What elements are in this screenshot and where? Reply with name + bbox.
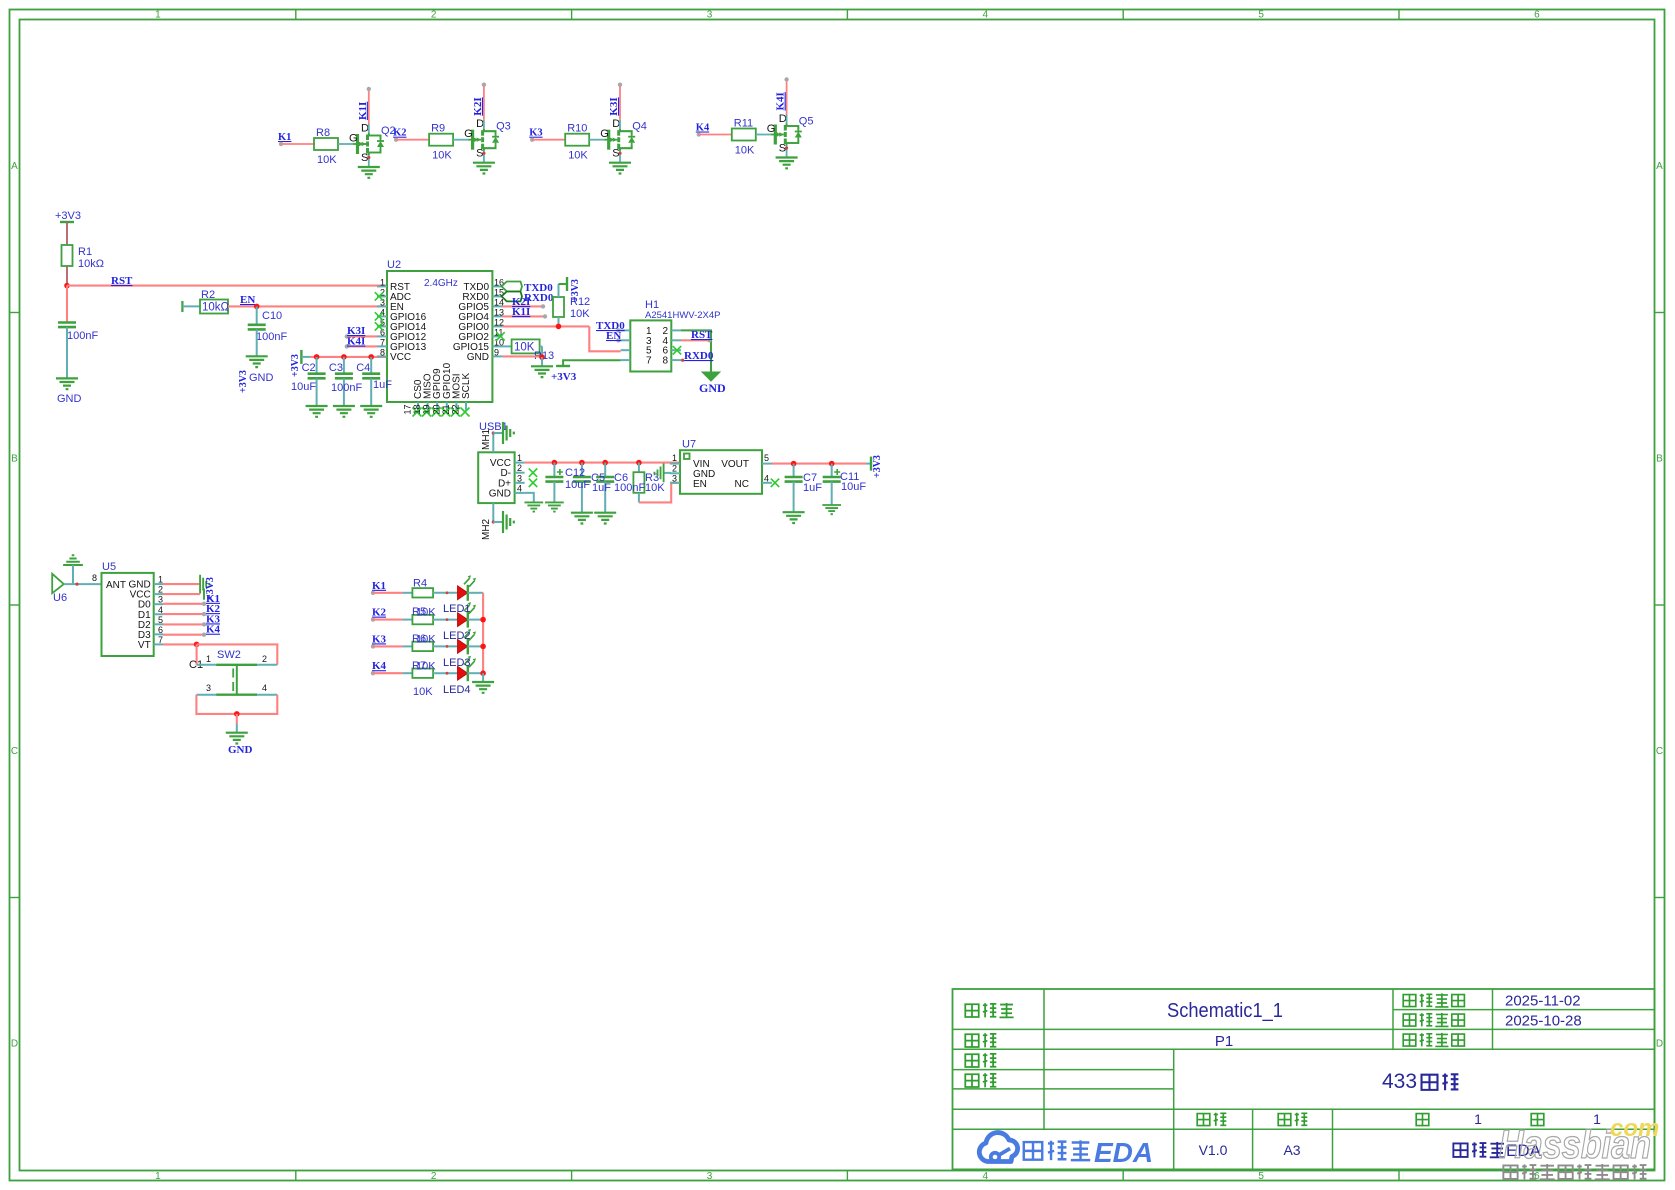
watermark Hassbian (1499, 1115, 1659, 1179)
svg-text:1: 1 (1474, 1111, 1482, 1127)
svg-text:K1I: K1I (357, 102, 369, 120)
svg-text:C12: C12 (565, 467, 585, 479)
net flag TXD0 (502, 282, 554, 295)
svg-text:10uF: 10uF (291, 381, 316, 393)
transistor Q4 (600, 118, 647, 160)
wire (338, 143, 353, 145)
svg-text:6: 6 (1534, 1171, 1540, 1182)
net label K1 (371, 580, 386, 595)
capacitor C4 (356, 362, 380, 378)
wire (373, 672, 412, 674)
net label K2 (393, 128, 406, 142)
wire SW2 bottom loop (196, 695, 277, 733)
wire drain to K1I (367, 87, 371, 133)
wire (532, 139, 565, 141)
svg-text:3: 3 (158, 595, 163, 605)
svg-text:VOUT: VOUT (721, 459, 749, 470)
title block text (965, 993, 1601, 1161)
svg-text:+3V3: +3V3 (872, 455, 883, 478)
resistor R8 (314, 127, 338, 166)
pin 10 GPIO15 (453, 337, 504, 353)
net label TXD0 (H1 pin1) (596, 320, 625, 333)
ground (238, 356, 274, 393)
wire EN (228, 305, 387, 307)
resistor R3 10K (633, 463, 665, 494)
svg-text:VCC: VCC (390, 352, 411, 363)
wire (433, 591, 457, 594)
wire VCC rail (301, 356, 387, 358)
node junction C3 (341, 354, 347, 360)
node RST junction (64, 283, 70, 289)
svg-text:LED1: LED1 (443, 603, 471, 615)
svg-text:U2: U2 (387, 259, 401, 271)
svg-text:S: S (361, 152, 368, 164)
svg-text:3: 3 (517, 473, 522, 483)
resistor R6 (412, 642, 433, 651)
wire K2I (502, 296, 545, 309)
wire (604, 463, 606, 477)
power +3V3 (290, 350, 301, 377)
svg-text:10K: 10K (317, 154, 337, 166)
wire (343, 378, 345, 406)
svg-text:3: 3 (206, 683, 211, 693)
svg-text:100nF: 100nF (331, 382, 362, 394)
wire (589, 139, 604, 141)
svg-text:R2: R2 (201, 289, 215, 301)
net flag RXD0 (502, 292, 554, 305)
wire (453, 139, 468, 141)
svg-text:10uF: 10uF (841, 481, 866, 493)
wire VT (163, 642, 199, 648)
capacitor C1 100nF (58, 323, 98, 343)
svg-text:MH2: MH2 (481, 518, 492, 540)
pin 18 MISO (412, 373, 434, 414)
wire ANT (64, 583, 102, 586)
no-connect X (461, 408, 470, 417)
net label K4I (775, 92, 787, 110)
svg-text:K4: K4 (696, 123, 710, 134)
wire (256, 329, 258, 356)
svg-text:1uF: 1uF (373, 379, 392, 391)
node junction R3 (636, 460, 642, 466)
svg-text:G: G (349, 133, 358, 145)
ground (776, 158, 798, 169)
svg-text:5: 5 (1258, 10, 1264, 21)
wire source (482, 151, 485, 163)
ground arrow (699, 372, 726, 395)
wire (433, 645, 457, 648)
svg-text:1: 1 (672, 453, 677, 463)
op-amp U7 regulator (670, 439, 772, 494)
capacitor C2 (302, 362, 326, 378)
pin 12 GPIO0 (458, 317, 504, 333)
ground (531, 366, 553, 377)
svg-text:20: 20 (431, 404, 441, 414)
svg-text:R9: R9 (431, 123, 445, 135)
svg-text:K2: K2 (372, 607, 387, 619)
svg-text:B: B (1656, 454, 1663, 465)
wire drain to K2I (482, 83, 486, 129)
svg-text:2: 2 (517, 463, 522, 473)
svg-text:22: 22 (451, 404, 461, 414)
title block (953, 989, 1655, 1169)
pin 9 GND (467, 347, 503, 363)
svg-text:GND: GND (228, 744, 253, 756)
pin 1 RST (377, 277, 410, 293)
node junction C5 (579, 460, 585, 466)
svg-text:1: 1 (155, 1171, 161, 1182)
wire VCC rail (525, 462, 680, 464)
svg-text:K3: K3 (529, 128, 542, 139)
pin 21 MOSI (441, 373, 463, 414)
wire (256, 306, 258, 324)
pin 11 GPIO2 (458, 327, 503, 343)
net label K2 (371, 607, 387, 622)
ground (358, 167, 380, 178)
svg-text:17: 17 (403, 404, 413, 414)
wire H1 pin8 (681, 359, 684, 362)
svg-text:8: 8 (92, 573, 97, 583)
no-connect X (441, 408, 450, 417)
pin 2 D- (500, 463, 524, 479)
svg-text:+3V3: +3V3 (55, 210, 81, 222)
svg-text:10K: 10K (735, 145, 755, 157)
svg-text:Q5: Q5 (799, 116, 814, 128)
wire K2 (D1) (163, 612, 206, 616)
svg-text:R1: R1 (78, 246, 92, 258)
svg-text:U5: U5 (102, 561, 116, 573)
svg-text:K2: K2 (393, 128, 406, 139)
svg-text:4: 4 (983, 10, 989, 21)
pin 5 D2 (138, 615, 163, 631)
svg-text:K4: K4 (206, 624, 221, 636)
wire K1I (502, 306, 547, 319)
pin 22 SCLK (451, 373, 473, 415)
connector USB1 (478, 421, 514, 503)
net label K2 (206, 603, 221, 615)
wire GND pin1 (163, 575, 209, 594)
svg-text:7: 7 (158, 635, 163, 645)
resistor R2 10k (200, 289, 230, 314)
net label K3 (529, 128, 542, 142)
svg-text:LED3: LED3 (443, 657, 471, 669)
svg-text:U6: U6 (53, 592, 67, 604)
svg-text:SW2: SW2 (217, 649, 241, 661)
svg-text:K2I: K2I (472, 97, 484, 115)
antenna U6 (52, 574, 67, 604)
wire (553, 463, 555, 477)
svg-text:+3V3: +3V3 (290, 354, 301, 377)
wire source (618, 151, 621, 163)
pin 4 GND (489, 483, 525, 499)
wire H1 pin7 to +3V3 (551, 360, 621, 383)
net label RST (111, 275, 133, 287)
svg-text:R10: R10 (567, 123, 587, 135)
pin 13 GPIO4 (458, 307, 504, 323)
wire R12 top to +3V3 (559, 277, 582, 302)
svg-text:1: 1 (380, 277, 385, 287)
svg-text:+3V3: +3V3 (238, 370, 249, 393)
svg-text:MH1: MH1 (481, 428, 492, 450)
svg-text:C: C (11, 746, 18, 757)
svg-text:8: 8 (380, 347, 385, 357)
svg-text:ANT: ANT (106, 580, 126, 591)
svg-text:NC: NC (735, 479, 749, 490)
wire drain to K4I (784, 77, 788, 123)
svg-text:2: 2 (158, 585, 163, 595)
LED LED3 (458, 629, 477, 655)
wire (433, 618, 457, 621)
svg-text:Schematic1_1: Schematic1_1 (1167, 1000, 1283, 1022)
pin 1 GND (128, 575, 163, 591)
svg-text:C4: C4 (356, 362, 370, 374)
wire (468, 645, 483, 647)
wire (581, 463, 583, 477)
svg-text:Q3: Q3 (496, 121, 511, 133)
net label K1I (357, 102, 369, 120)
no-connect X / net label RXD0 (H1 pin6) (673, 346, 714, 362)
no-connect X NC (771, 479, 779, 487)
pin 4 D1 (138, 605, 163, 621)
svg-text:U7: U7 (682, 439, 696, 451)
svg-text:RXD0: RXD0 (684, 350, 714, 362)
svg-text:5: 5 (158, 615, 163, 625)
net label K1 (278, 132, 291, 146)
capacitor C6 100nF (596, 477, 614, 482)
svg-text:S: S (612, 148, 619, 160)
net label EN (240, 294, 255, 306)
svg-text:10kΩ: 10kΩ (202, 302, 230, 314)
pin 3 D0 (138, 595, 163, 611)
resistor R9 (429, 123, 453, 162)
net label K4 (371, 660, 387, 675)
wire (370, 378, 372, 406)
svg-text:6: 6 (158, 625, 163, 635)
wire R12 bottom (556, 317, 562, 329)
svg-text:EN: EN (693, 479, 707, 490)
svg-text:R4: R4 (413, 578, 427, 590)
wire (373, 592, 412, 594)
svg-text:2: 2 (431, 10, 437, 21)
svg-text:1uF: 1uF (592, 482, 611, 494)
LED LED1 (458, 575, 477, 601)
ground (306, 406, 328, 417)
svg-text:3: 3 (707, 1171, 713, 1182)
logo JLC EDA (979, 1133, 1153, 1168)
svg-text:10kΩ: 10kΩ (78, 258, 104, 270)
svg-text:+3V3: +3V3 (570, 279, 581, 302)
net label K2I (472, 97, 484, 115)
svg-text:A3: A3 (1283, 1142, 1300, 1158)
pin 7 VT (138, 635, 163, 651)
mounting hole MH2 (481, 503, 514, 540)
svg-text:4: 4 (158, 605, 163, 615)
pin 8 VCC (377, 347, 411, 363)
svg-text:GND: GND (699, 381, 726, 395)
svg-text:7: 7 (380, 337, 385, 347)
svg-text:433: 433 (1382, 1070, 1417, 1093)
capacitor C7 1uF (785, 464, 803, 482)
no-connect X pins 2,4,5,11 (375, 292, 505, 340)
svg-text:2: 2 (262, 654, 267, 664)
wire VCC pin2 +3V3 (163, 577, 216, 600)
svg-text:K1: K1 (278, 132, 291, 143)
pin 2 ADC (377, 287, 411, 303)
svg-text:21: 21 (441, 404, 451, 414)
wire + ground C7 (783, 482, 805, 523)
svg-text:GND: GND (249, 372, 274, 384)
svg-text:10K: 10K (514, 342, 535, 354)
svg-text:D: D (612, 118, 620, 130)
no-connect X (422, 408, 431, 417)
svg-text:10K: 10K (568, 150, 588, 162)
svg-text:C: C (1656, 746, 1663, 757)
wire USB GND (525, 493, 534, 503)
svg-text:2025-11-02: 2025-11-02 (1505, 993, 1581, 1010)
net label EN (H1 pin3) (606, 330, 621, 342)
svg-text:4: 4 (983, 1171, 989, 1182)
ground (antenna) (63, 555, 83, 584)
svg-text:8: 8 (662, 356, 668, 367)
net label K3I (608, 97, 620, 115)
net label K3 (206, 613, 221, 625)
svg-text:C2: C2 (302, 362, 316, 374)
svg-text:LED4: LED4 (443, 684, 471, 696)
node junction C12 (552, 460, 558, 466)
capacitor labels (803, 471, 866, 494)
svg-text:K1I: K1I (512, 306, 530, 318)
pin 19 GPIO9 (422, 368, 444, 415)
svg-text:1: 1 (517, 453, 522, 463)
svg-text:10K: 10K (416, 634, 436, 646)
pin 2 VCC (130, 585, 163, 601)
svg-text:G: G (464, 128, 473, 140)
node junction C4 (368, 354, 374, 360)
svg-text:A: A (1656, 161, 1663, 172)
wire K4 (D3) (163, 633, 206, 637)
wire (66, 266, 68, 286)
svg-text:4: 4 (262, 683, 267, 693)
svg-text:D: D (1656, 1039, 1663, 1050)
wire H1 pin2 to GND (681, 330, 711, 372)
pin 17 CS0 (403, 379, 425, 414)
svg-text:18: 18 (412, 404, 422, 414)
svg-text:K3I: K3I (608, 97, 620, 115)
capacitor C10 100nF (248, 310, 288, 343)
svg-text:10K: 10K (416, 661, 436, 673)
wire drain to K3I (618, 83, 622, 129)
svg-text:100nF: 100nF (614, 482, 645, 494)
wire LED bus (480, 593, 486, 682)
op-amp U5 receiver (92, 561, 154, 656)
pin 4 GPIO16 (377, 307, 427, 323)
net label K4 (696, 123, 710, 137)
resistor R7 (412, 669, 433, 678)
svg-text:D: D (476, 118, 484, 130)
ground (333, 406, 355, 417)
wire source (367, 155, 370, 167)
resistor R10 (565, 123, 589, 162)
wire (182, 305, 200, 307)
pin 15 RXD0 (462, 287, 504, 303)
wire R3 to EN (639, 483, 680, 503)
no-connect X (451, 408, 460, 417)
svg-text:SCLK: SCLK (461, 373, 472, 399)
pin 5 GPIO14 (377, 317, 427, 333)
svg-text:V1.0: V1.0 (1199, 1142, 1228, 1158)
svg-text:1: 1 (155, 10, 161, 21)
svg-text:A2541HWV-2X4P: A2541HWV-2X4P (645, 310, 721, 321)
ground (473, 163, 495, 174)
svg-text:K3: K3 (372, 633, 387, 645)
svg-text:D: D (11, 1039, 18, 1050)
svg-text:EN: EN (240, 294, 255, 306)
wire (756, 134, 771, 136)
transistor Q3 (464, 118, 511, 160)
svg-text:5: 5 (764, 453, 769, 463)
stub bar (181, 301, 183, 312)
ground (609, 163, 631, 174)
svg-text:GND: GND (57, 393, 82, 405)
svg-text:RST: RST (691, 329, 713, 341)
svg-text:S: S (779, 143, 786, 155)
no-connect X D- D+ (529, 469, 537, 488)
svg-text:C10: C10 (262, 310, 282, 322)
svg-text:B: B (11, 454, 18, 465)
capacitor C3 (329, 362, 353, 378)
capacitor C12 10uF (545, 469, 563, 482)
pin 6 GPIO12 (377, 327, 427, 343)
svg-text:10K: 10K (416, 607, 436, 619)
svg-text:10K: 10K (570, 308, 590, 320)
LED LED4 (458, 656, 477, 682)
svg-text:S: S (476, 148, 483, 160)
pin 6 D3 (138, 625, 163, 641)
svg-text:5: 5 (1258, 1171, 1264, 1182)
capacitor labels (565, 467, 645, 494)
svg-text:1uF: 1uF (803, 482, 822, 494)
wire GPIO0 (502, 325, 589, 327)
svg-text:G: G (767, 123, 776, 135)
svg-text:100nF: 100nF (67, 330, 98, 342)
svg-text:D: D (779, 113, 787, 125)
net label K4 (206, 624, 221, 636)
node junction C11 (829, 461, 835, 467)
ground (360, 406, 382, 417)
wire K3 (D2) (163, 622, 206, 626)
pin 3 D+ (498, 473, 525, 489)
wire (396, 139, 429, 141)
op-amp U2 2.4GHz module (387, 259, 492, 402)
switch SW2 (189, 649, 277, 695)
svg-text:6: 6 (1534, 10, 1540, 21)
svg-text:10K: 10K (413, 686, 433, 698)
wire source (785, 146, 788, 158)
wire + ground C11 (822, 482, 841, 515)
transistor Q2 (349, 123, 396, 165)
svg-text:19: 19 (422, 404, 432, 414)
svg-text:RST: RST (111, 275, 133, 287)
resistor labels (412, 578, 436, 699)
wire (343, 357, 345, 374)
wire (468, 619, 483, 621)
no-connect X (413, 408, 422, 417)
svg-text:3: 3 (707, 10, 713, 21)
svg-text:EN: EN (606, 330, 621, 342)
svg-text:1: 1 (206, 654, 211, 664)
wire (66, 286, 68, 323)
capacitor C5 1uF (573, 477, 591, 482)
